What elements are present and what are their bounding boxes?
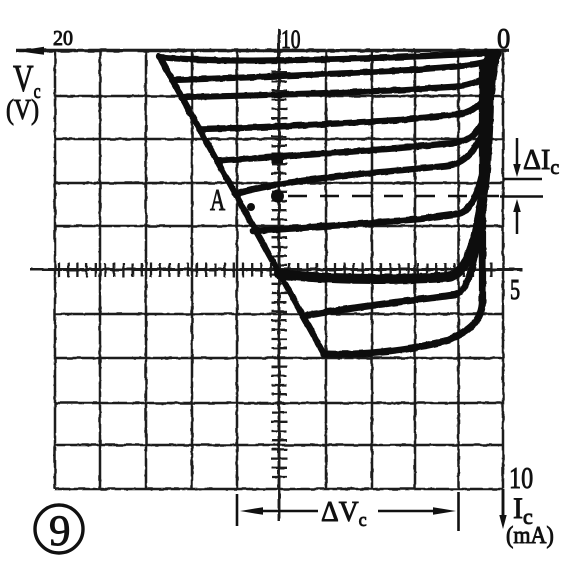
svg-text:(V): (V) — [6, 94, 39, 125]
load line — [159, 56, 324, 354]
curve 1 — [159, 52, 497, 61]
svg-text:5: 5 — [510, 275, 520, 306]
ticks on vertical Ic center axis — [272, 63, 288, 477]
ticks on horizontal mid axis — [59, 263, 491, 277]
curve 2 — [172, 53, 499, 80]
curve 5 — [217, 55, 494, 161]
curve 4 — [199, 55, 496, 129]
dashed line through point A level — [288, 195, 502, 197]
svg-text:10: 10 — [281, 25, 300, 53]
delta Vc left arrow — [240, 507, 263, 515]
svg-text:0: 0 — [497, 23, 510, 54]
delta Ic upper boundary bar — [503, 178, 542, 181]
square marker on center axis / curve 5 — [272, 153, 284, 164]
grid horizontal lines — [55, 96, 503, 489]
svg-text:A: A — [210, 182, 225, 217]
horizontal mid axis (Ic=5 line) — [30, 268, 523, 271]
Ic axis center vertical line — [278, 29, 281, 521]
point A dot on load line — [247, 203, 255, 211]
curve 9 — [304, 60, 487, 316]
Vc axis (top horizontal, arrow left) — [16, 49, 509, 53]
svg-text:10: 10 — [509, 461, 533, 496]
Ic axis extension bottom right with down arrow — [502, 489, 505, 520]
delta Vc right bar — [457, 492, 460, 531]
svg-text:(mA): (mA) — [506, 521, 554, 548]
delta Vc left bar — [236, 494, 239, 526]
delta Ic down arrow — [516, 138, 519, 168]
delta Ic up arrow — [516, 208, 519, 234]
curve 3 — [183, 54, 497, 97]
svg-text:20: 20 — [53, 28, 73, 51]
delta Vc right arrow — [378, 510, 438, 513]
curve 8 (bold band) — [279, 58, 490, 279]
curve 6 — [236, 56, 493, 194]
Vc axis left arrowhead — [17, 47, 44, 55]
curve 7 — [253, 57, 491, 231]
curve 10 — [324, 64, 483, 354]
round marker on center axis / curve 6 — [271, 190, 284, 203]
figure number circle 9 — [35, 505, 83, 553]
grid vertical lines — [55, 50, 503, 489]
svg-text:9: 9 — [49, 508, 71, 555]
